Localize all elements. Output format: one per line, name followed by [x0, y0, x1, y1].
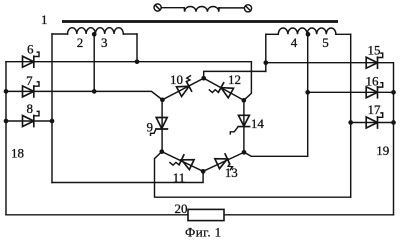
- svg-text:14: 14: [251, 116, 265, 131]
- svg-text:13: 13: [225, 165, 238, 180]
- svg-text:5: 5: [322, 35, 329, 50]
- svg-text:2: 2: [77, 35, 84, 50]
- svg-text:1: 1: [41, 12, 48, 27]
- svg-text:8: 8: [27, 101, 34, 116]
- svg-text:19: 19: [376, 143, 389, 158]
- svg-text:10: 10: [170, 72, 183, 87]
- svg-text:20: 20: [175, 201, 188, 216]
- svg-text:16: 16: [366, 73, 380, 88]
- svg-text:15: 15: [368, 43, 381, 58]
- svg-text:7: 7: [26, 73, 33, 88]
- svg-text:4: 4: [291, 35, 298, 50]
- svg-text:3: 3: [101, 35, 108, 50]
- svg-text:17: 17: [368, 102, 382, 117]
- svg-text:18: 18: [11, 146, 24, 161]
- svg-text:6: 6: [27, 41, 34, 56]
- svg-text:9: 9: [146, 120, 153, 135]
- svg-text:12: 12: [228, 72, 241, 87]
- svg-text:11: 11: [173, 170, 186, 185]
- svg-text:Фиг. 1: Фиг. 1: [185, 224, 222, 239]
